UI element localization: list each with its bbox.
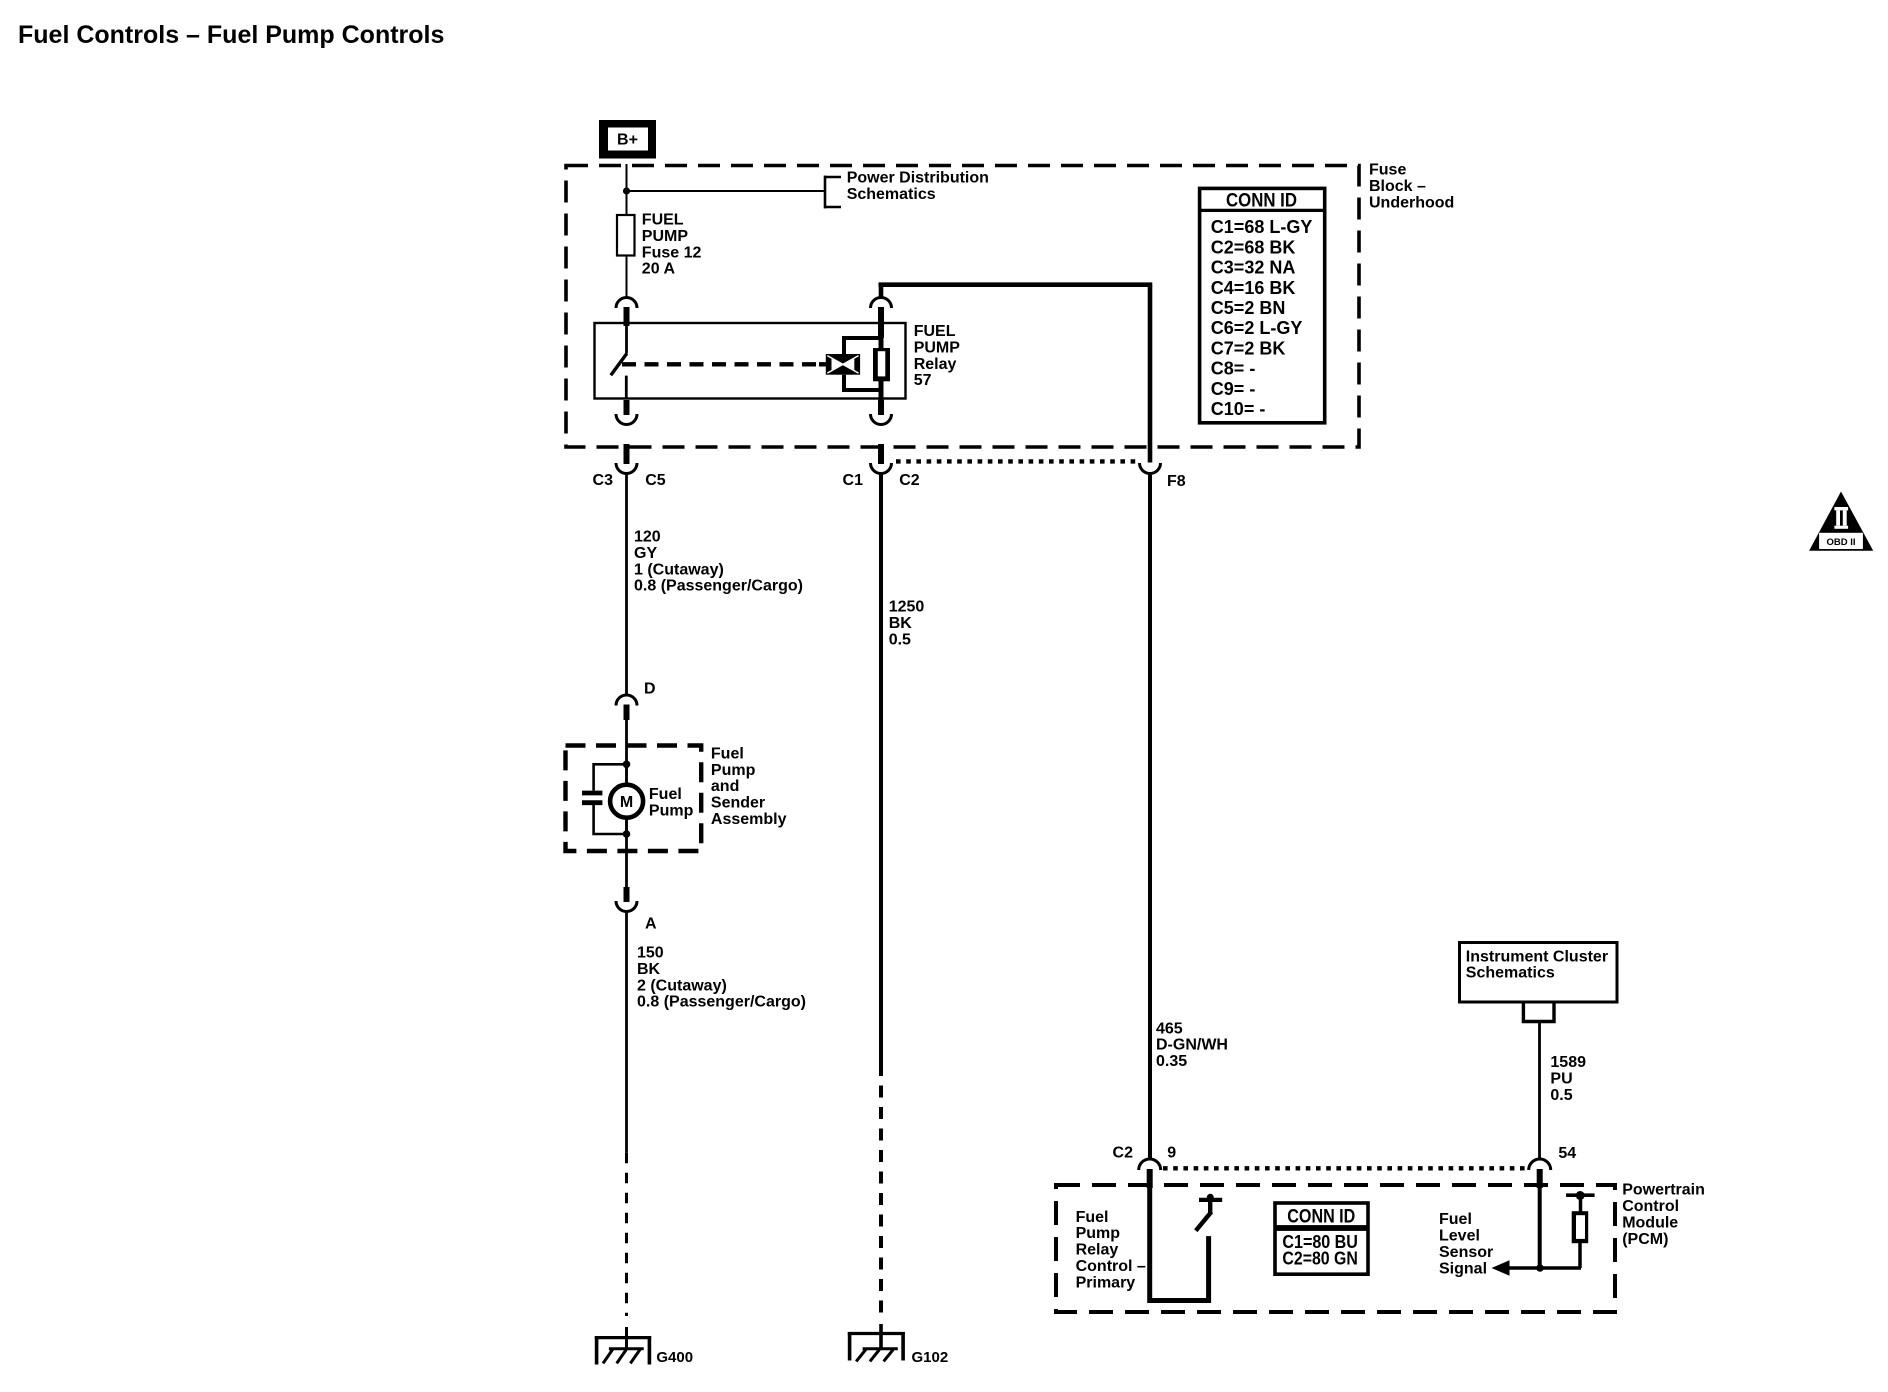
dotted jumper C2 to F8 (896, 459, 1138, 463)
capacitor branch wires (594, 764, 627, 834)
connector pin stub D (624, 705, 630, 721)
OBD II symbol (1809, 492, 1873, 551)
junction node PCM (1536, 1264, 1544, 1272)
fuel level sensor signal arrow wire (1506, 1266, 1581, 1270)
battery feed B+ (599, 120, 656, 159)
relay coil (X in box) (826, 354, 860, 375)
wire D to pump box (625, 720, 628, 764)
connector bracket below instrument cluster (1523, 1003, 1554, 1022)
connector C1/C2 pin stub (878, 444, 884, 464)
fuse FUEL PUMP Fuse 12 20A (617, 215, 635, 256)
svg-text:F8: F8 (1167, 473, 1186, 490)
wire C1 branch inside relay (879, 336, 884, 350)
capacitor plates (582, 791, 602, 796)
wire to ground dashed (625, 1153, 628, 1316)
wire junction to motor (625, 764, 628, 786)
wire B+ down to junction (626, 164, 628, 215)
PCM driver node dot (1207, 1194, 1214, 1201)
svg-text:54: 54 (1558, 1145, 1576, 1162)
dotted jumper C2/9 to 54 (1163, 1166, 1526, 1170)
wire fuse to relay connector (626, 256, 628, 298)
PCM driver T-bar (1199, 1198, 1222, 1202)
connector pin stub relay bottom right (878, 400, 884, 415)
junction node (623, 187, 630, 194)
wire to ground dashed (879, 1064, 883, 1313)
PCM resistor lower wire (1578, 1243, 1582, 1268)
svg-text:C2: C2 (1113, 1145, 1134, 1162)
connector cup relay bottom left (616, 414, 637, 425)
connector cup A (616, 901, 637, 912)
connector C3/C5 cup (616, 463, 637, 474)
connector pin stub 54 (1537, 1169, 1543, 1188)
svg-text:C5: C5 (645, 472, 666, 489)
wire junction to power distribution tap (627, 190, 826, 192)
wire relay top horizontal to F8 branch (879, 282, 1153, 287)
wire pump box to A (625, 834, 628, 888)
PCM driver wire from C2/9 (1150, 1187, 1209, 1301)
PCM resistor upper wire (1579, 1198, 1583, 1212)
PCM driver stub (1208, 1201, 1212, 1213)
junction node pump bottom (623, 830, 631, 838)
svg-text:G400: G400 (656, 1349, 693, 1366)
wire F8 branch vertical (1148, 286, 1153, 463)
svg-text:G102: G102 (912, 1349, 949, 1366)
arrowhead (1492, 1260, 1510, 1275)
connector cup relay bottom right (871, 414, 892, 425)
CONN ID table (PCM) (1275, 1203, 1368, 1274)
relay coil stub (819, 362, 826, 366)
PCM sensor node dot (1576, 1191, 1585, 1200)
wire C5 to D (625, 474, 628, 696)
connector F8 cup (1140, 463, 1161, 474)
wire A to ground solid (625, 912, 628, 1153)
PCM sensor T-bar (1566, 1193, 1595, 1197)
CONN ID table (fuse block) (1200, 188, 1325, 422)
junction node pump top (623, 761, 631, 769)
svg-text:C3: C3 (593, 472, 614, 489)
svg-text:CONN ID: CONN ID (1226, 191, 1297, 212)
svg-text:D: D (644, 680, 656, 697)
svg-text:Fuel Controls – Fuel Pump Cont: Fuel Controls – Fuel Pump Controls (18, 21, 444, 49)
connector arch D (616, 695, 637, 706)
svg-text:OBD II: OBD II (1826, 537, 1855, 548)
wire F8 down to PCM (1148, 474, 1152, 1160)
connector pin stub relay bottom left (624, 400, 630, 415)
connector pin stub (624, 307, 630, 326)
svg-text:A: A (645, 916, 657, 933)
wire motor to junction (625, 816, 628, 834)
relay switch wire upper (625, 325, 628, 354)
relay switch arm (611, 354, 627, 376)
connector pin stub C2/9 (1147, 1169, 1153, 1188)
connector pin stub A (624, 887, 630, 902)
svg-text:C2: C2 (899, 472, 920, 489)
svg-text:M: M (620, 794, 633, 811)
wire C2 to ground solid (879, 474, 883, 1065)
powertrain control module dashed box (1056, 1185, 1615, 1312)
PCM resistor (1572, 1211, 1589, 1243)
relay switch wire lower (625, 376, 628, 398)
svg-text:CONN ID: CONN ID (1287, 1206, 1355, 1227)
bracket: power distribution schematics tap (824, 176, 841, 209)
instrument cluster schematics box (1460, 943, 1618, 1003)
svg-text:9: 9 (1167, 1145, 1176, 1162)
wire ground stub (879, 1324, 883, 1349)
svg-text:C2=80 GN: C2=80 GN (1282, 1248, 1358, 1268)
svg-text:B+: B+ (617, 132, 638, 149)
fuel pump motor M (610, 785, 643, 818)
relay resistor element (873, 348, 890, 381)
svg-text:C1: C1 (843, 472, 864, 489)
wire 54 down to junction (1538, 1188, 1542, 1268)
PCM driver switch arm (1196, 1212, 1212, 1231)
wire C1 branch below resistor (879, 379, 884, 401)
wire ground stub (625, 1327, 628, 1349)
connector arch 54 (1529, 1159, 1551, 1170)
ground G102 (848, 1332, 905, 1361)
wire instrument cluster to 54 (1538, 1022, 1541, 1160)
connector C1/C2 cup (871, 463, 892, 474)
relay actuation dashed line (622, 362, 820, 366)
relay box outline (595, 323, 906, 399)
connector arch at relay top left (616, 298, 637, 309)
connector pin stub (878, 307, 884, 338)
fuel pump and sender assembly dashed box (566, 746, 702, 852)
fuse block underhood dashed box (566, 166, 1359, 448)
connector arch C2/9 (1139, 1159, 1161, 1170)
connector arch at relay top right (871, 298, 892, 309)
relay coil bracket wires (844, 338, 881, 390)
wire C1 branch vertical above relay (879, 286, 884, 298)
connector C3/C5 pin stub (624, 444, 630, 464)
ground G400 (595, 1336, 651, 1365)
